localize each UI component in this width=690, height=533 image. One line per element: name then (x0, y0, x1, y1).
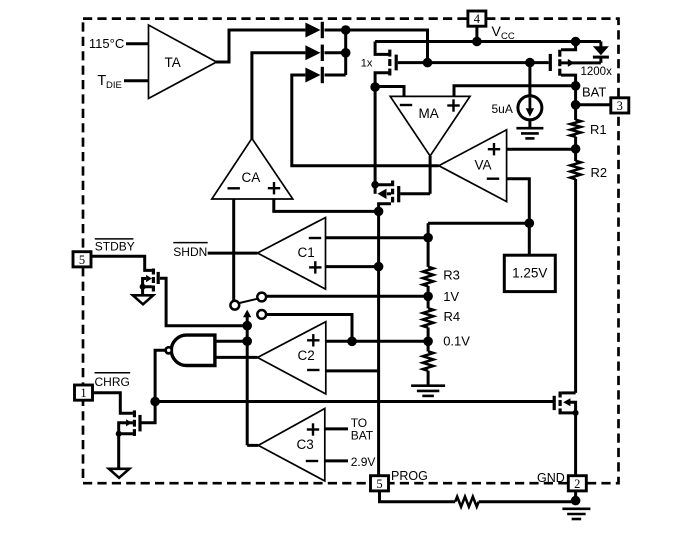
svg-text:115°C: 115°C (89, 36, 124, 51)
svg-text:R1: R1 (590, 122, 607, 137)
svg-text:PROG: PROG (391, 469, 428, 483)
svg-text:1V: 1V (443, 289, 459, 304)
svg-text:SHDN: SHDN (173, 245, 207, 259)
svg-text:C2: C2 (298, 348, 315, 363)
svg-text:1.25V: 1.25V (512, 266, 547, 281)
svg-text:3: 3 (617, 99, 623, 113)
svg-text:C3: C3 (297, 437, 314, 452)
svg-text:C1: C1 (298, 245, 315, 260)
svg-text:CC: CC (501, 31, 515, 42)
svg-text:STDBY: STDBY (95, 240, 135, 254)
svg-text:BAT: BAT (582, 85, 606, 100)
svg-text:5uA: 5uA (492, 102, 513, 116)
svg-text:R3: R3 (443, 268, 460, 283)
svg-text:MA: MA (419, 106, 439, 121)
svg-text:TA: TA (165, 55, 181, 70)
svg-text:0.1V: 0.1V (443, 333, 470, 348)
svg-text:1200x: 1200x (581, 66, 613, 78)
svg-text:1: 1 (80, 386, 86, 400)
svg-text:5: 5 (376, 477, 382, 491)
svg-text:1x: 1x (361, 58, 373, 70)
svg-text:2.9V: 2.9V (351, 455, 376, 469)
svg-text:GND: GND (537, 471, 565, 485)
svg-text:CHRG: CHRG (95, 375, 130, 389)
svg-text:DIE: DIE (106, 80, 122, 91)
svg-text:4: 4 (474, 12, 481, 26)
svg-text:CA: CA (242, 170, 261, 185)
svg-text:V: V (492, 23, 502, 39)
svg-text:5: 5 (79, 253, 85, 267)
svg-text:R4: R4 (444, 309, 461, 324)
svg-text:VA: VA (475, 158, 492, 173)
svg-text:R2: R2 (591, 165, 608, 180)
svg-text:BAT: BAT (351, 429, 374, 443)
svg-text:2: 2 (574, 477, 580, 491)
